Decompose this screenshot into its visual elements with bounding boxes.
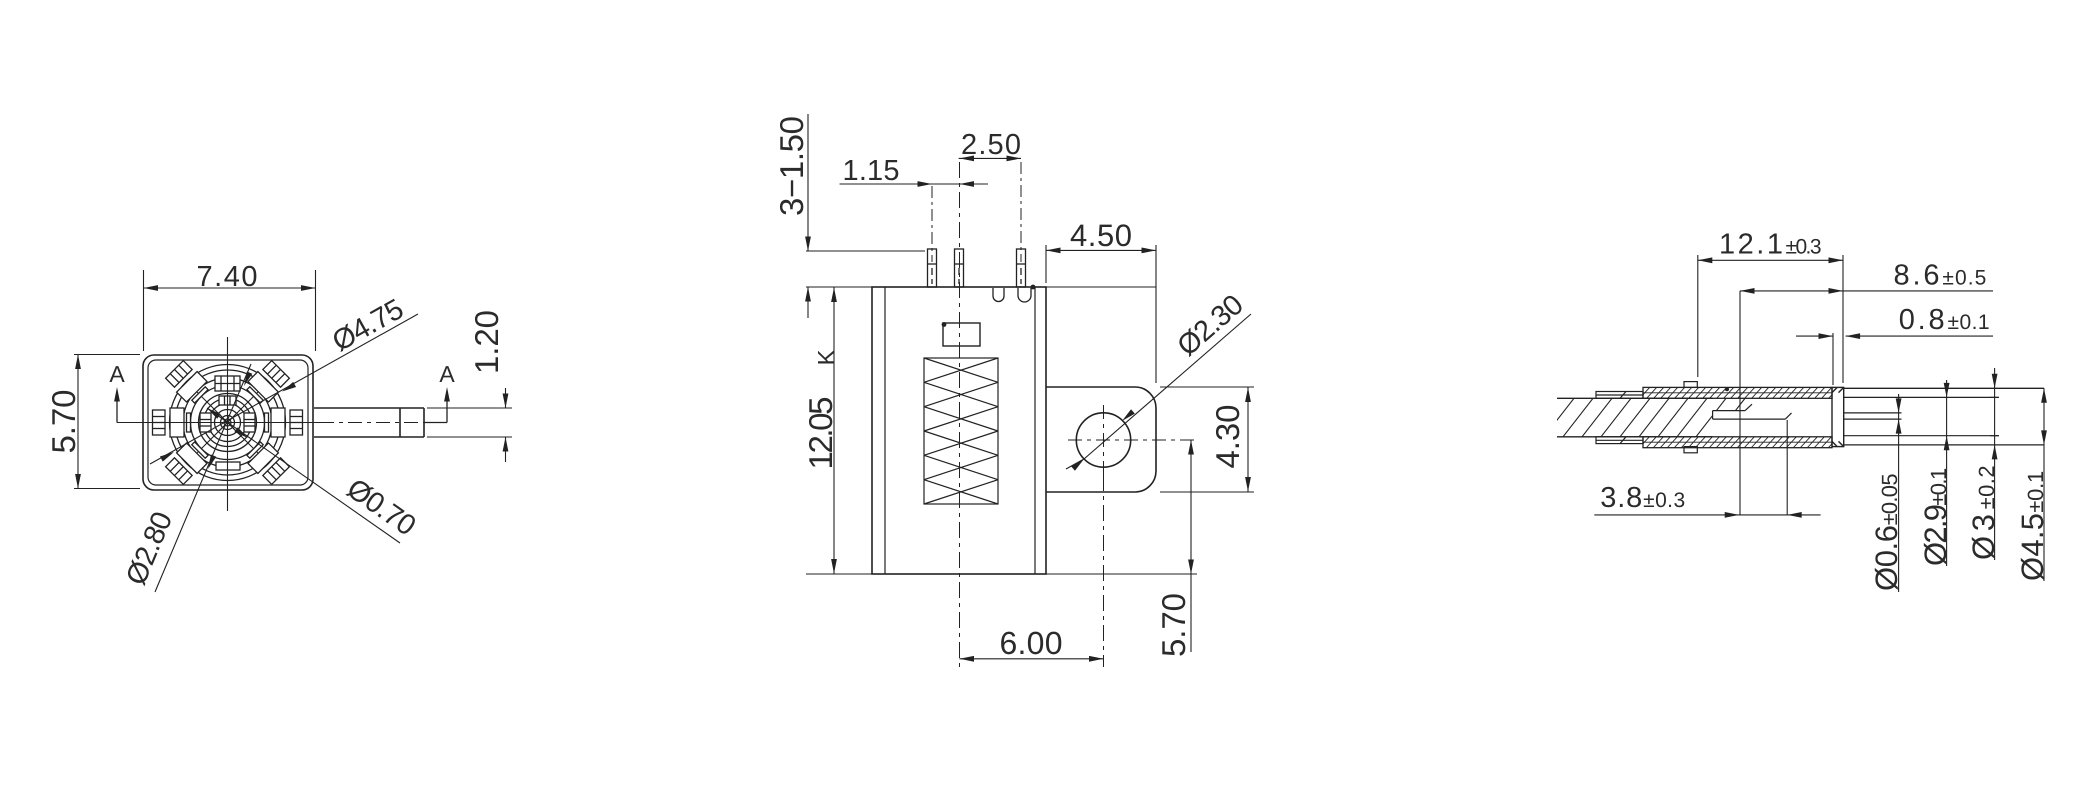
pin 3 centerline — [1020, 162, 1022, 262]
latch tab south-east — [243, 438, 290, 485]
center wire — [1844, 413, 1902, 419]
svg-text:4.50: 4.50 — [1070, 218, 1132, 253]
pin 1 centerline — [931, 186, 933, 262]
dimension 12.05 with K — [802, 287, 872, 574]
dimension 4.50 — [1046, 218, 1156, 383]
coil winding — [924, 358, 998, 504]
sleeve bump top — [1684, 382, 1697, 388]
pin 1 — [928, 249, 937, 287]
north inner key — [219, 396, 236, 405]
leader diameter 0.70 — [205, 406, 421, 543]
dimension 12.1 — [1698, 229, 1843, 384]
cable hatching — [1544, 398, 1764, 437]
cable outline — [1557, 398, 1713, 437]
dimension 6.00 — [960, 625, 1104, 662]
inner housing square — [148, 360, 308, 485]
svg-text:K: K — [814, 349, 841, 365]
leader diameter 4.75 — [150, 293, 418, 464]
svg-text:5.70: 5.70 — [1155, 593, 1192, 657]
south key — [216, 462, 240, 470]
dimension 3.8 — [1594, 291, 1820, 518]
latch tab south-west — [164, 438, 211, 485]
braid ferrule top — [1596, 392, 1643, 399]
svg-text:2.50: 2.50 — [961, 129, 1021, 161]
crimp sleeve bottom hatch — [1639, 435, 1840, 448]
latch tab north-east — [243, 359, 290, 406]
outer housing square — [143, 355, 313, 490]
vertical centerline — [227, 337, 229, 511]
svg-text:1.20: 1.20 — [468, 310, 505, 374]
svg-text:5.70: 5.70 — [45, 390, 82, 454]
crimp sleeve bottom band — [1643, 437, 1832, 448]
weld dot — [1725, 387, 1729, 391]
west inner contact — [200, 413, 211, 432]
leader diameter 2.30 — [1066, 289, 1251, 471]
terminal clamp hooks — [993, 285, 1035, 302]
dimension diameter 3 — [1966, 368, 2001, 560]
north keyway — [215, 376, 240, 391]
horizontal centerline / section plane — [117, 422, 424, 424]
crimp sleeve top band — [1643, 387, 1832, 398]
body inner wall left — [884, 287, 886, 574]
svg-text:4.30: 4.30 — [1209, 405, 1246, 469]
pin 2 — [955, 249, 964, 287]
tip outer tube — [1844, 388, 2044, 445]
dimension diameter 4.5 — [2015, 388, 2050, 581]
stopper square — [942, 322, 980, 346]
dimension 2.50 — [959, 129, 1021, 161]
dimension 8.6 — [1740, 260, 1993, 294]
svg-text:A: A — [439, 361, 455, 387]
connector rings — [170, 365, 286, 481]
east inner contact — [244, 413, 255, 432]
dimension 7.40 — [144, 261, 316, 351]
dimension 4.30 — [1160, 387, 1254, 492]
latch tab north-west — [164, 359, 211, 406]
dimension 0.8 — [1796, 304, 1993, 385]
mounting tab — [1046, 387, 1156, 492]
center pin cross — [219, 414, 236, 431]
svg-text:12.05: 12.05 — [802, 397, 839, 470]
hole centerlines — [1068, 405, 1196, 667]
diagonal spokes — [192, 387, 263, 458]
svg-text:1.15: 1.15 — [843, 155, 900, 187]
MIDDLE VIEW — [773, 114, 1254, 667]
dimension 5.70 vertical — [1046, 440, 1197, 657]
connector shaft — [314, 408, 424, 437]
dimension diameter 0.6 — [1869, 394, 1904, 592]
svg-text:3−1.50: 3−1.50 — [773, 116, 810, 216]
RIGHT VIEW — [1544, 229, 2050, 593]
body inner wall right — [1034, 287, 1036, 574]
section arrow A left — [109, 361, 125, 423]
section arrow A right — [424, 361, 455, 423]
svg-text:A: A — [109, 361, 125, 387]
body top edge extension to tab — [1046, 286, 1156, 288]
end cap — [1832, 387, 1844, 446]
latch tab east — [265, 408, 303, 437]
dimension 5.70 — [45, 355, 140, 489]
pin 3 — [1017, 249, 1026, 287]
dimension diameter 2.9 — [1918, 380, 1953, 566]
body centerline — [959, 162, 961, 667]
dimension 1.15 — [840, 155, 989, 187]
LEFT VIEW — [45, 261, 512, 592]
svg-text:6.00: 6.00 — [1000, 625, 1063, 661]
tip inner tube — [1844, 397, 1999, 435]
svg-text:7.40: 7.40 — [197, 261, 258, 293]
latch tab west — [153, 408, 191, 437]
leader diameter 2.80 — [120, 364, 252, 592]
crimp sleeve top hatch — [1639, 386, 1840, 399]
inner conductor step — [1713, 404, 1792, 419]
dimension 3-1.50 — [773, 114, 925, 318]
braid ferrule bottom — [1596, 437, 1643, 444]
coil body outline — [872, 287, 1046, 574]
mounting hole — [1076, 413, 1130, 467]
sleeve bump bottom — [1684, 447, 1697, 453]
dimension 1.20 — [427, 310, 512, 462]
